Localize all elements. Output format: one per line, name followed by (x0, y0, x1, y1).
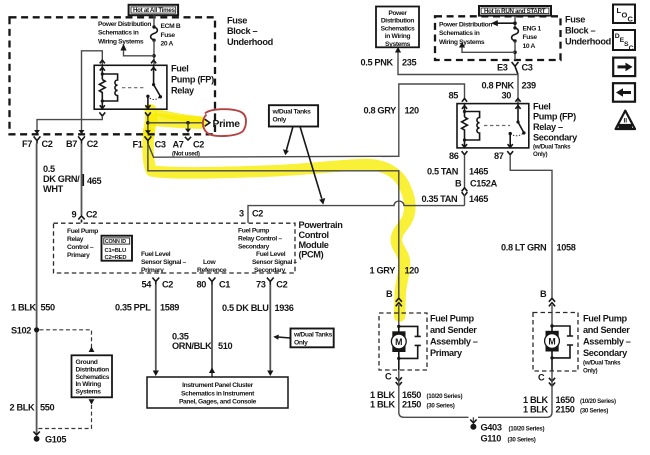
relay bottom pin chevrons (100, 105, 151, 108)
svg-text:1 BLK: 1 BLK (523, 405, 549, 415)
fuse block underhood (right) dashed box (435, 16, 561, 60)
svg-text:Control –: Control – (67, 244, 94, 251)
wire B7 to PCM pin 9 (81, 144, 83, 216)
icon arrow right box (613, 58, 635, 77)
svg-text:C2: C2 (86, 210, 97, 220)
svg-text:Control: Control (299, 230, 329, 240)
svg-text:B: B (540, 289, 547, 299)
svg-text:Only: Only (273, 117, 287, 124)
wire F7 ground chain (36, 144, 38, 435)
fuel pump relay secondary box (457, 104, 529, 148)
wire E3 to relay pin 30 (0.8 PNK 239) (517, 75, 519, 104)
svg-text:0.35 TAN: 0.35 TAN (422, 194, 459, 204)
ground distribution schematics box (72, 355, 113, 397)
PCM pin 9 C2 (72, 210, 98, 223)
highlighter mark along fuel pump feed wire (148, 132, 410, 316)
svg-text:510: 510 (218, 341, 233, 351)
svg-text:B7: B7 (66, 139, 77, 149)
secondary fuel level sender (552, 326, 573, 358)
svg-text:Fuel Pump: Fuel Pump (583, 313, 628, 323)
ground G403 / G110 (470, 417, 544, 443)
svg-text:Systems: Systems (76, 389, 102, 396)
wire below fuse, junction (514, 41, 516, 60)
splice S102 (34, 327, 39, 332)
fuse ECM B 20A (151, 23, 181, 47)
primary pump terminal C (385, 372, 402, 386)
svg-text:550: 550 (41, 303, 56, 313)
svg-text:ENG 1: ENG 1 (523, 26, 542, 33)
wire PCM 80 to instrument panel cluster (211, 285, 213, 378)
red circle annotation around Prime (203, 109, 246, 136)
relay coil pin chevrons (top left) (100, 60, 105, 70)
icon arrow left box (613, 83, 635, 102)
relay socket Y symbols below box (99, 112, 150, 116)
svg-text:1 BLK: 1 BLK (370, 390, 396, 400)
svg-text:Secondary: Secondary (254, 267, 286, 274)
svg-text:A7: A7 (173, 139, 184, 149)
relay2 armature dashed link (484, 125, 510, 127)
svg-text:3: 3 (239, 209, 244, 219)
junction node F1 / prime branch (146, 121, 150, 125)
svg-text:Schematics in: Schematics in (439, 30, 480, 37)
svg-text:Underhood: Underhood (565, 36, 611, 46)
primary pump terminal B (386, 289, 402, 327)
svg-text:Relay Control –: Relay Control – (238, 236, 282, 243)
svg-text:Underhood: Underhood (227, 37, 273, 47)
relay2 coil pin chevrons (462, 99, 467, 109)
svg-text:G403: G403 (481, 422, 502, 432)
CONN ID table (102, 236, 133, 261)
svg-text:Assembly –: Assembly – (430, 336, 478, 346)
svg-text:0.8 PNK: 0.8 PNK (482, 80, 515, 90)
svg-text:CONN ID: CONN ID (105, 239, 126, 245)
svg-text:Systems: Systems (385, 41, 411, 48)
svg-text:1650: 1650 (402, 390, 421, 400)
svg-text:Relay –: Relay – (533, 122, 563, 132)
svg-text:ORN/BLK: ORN/BLK (172, 341, 212, 351)
ground G105 (33, 432, 66, 445)
svg-text:550: 550 (40, 403, 55, 413)
svg-text:Hot in RUN and START: Hot in RUN and START (484, 8, 546, 15)
wire PCM 54 to instrument panel cluster (155, 285, 157, 372)
svg-text:C2: C2 (276, 280, 287, 290)
svg-text:C3: C3 (522, 62, 533, 72)
svg-text:In Wiring: In Wiring (76, 381, 102, 388)
wire fuse to relay switch pin (153, 40, 155, 65)
junction node A7 stub (186, 121, 190, 125)
wire bracket feeding relay coil from B7 (82, 51, 103, 132)
svg-text:C2: C2 (193, 139, 204, 149)
PCM text fuel pump relay control secondary (238, 228, 282, 251)
svg-text:B: B (386, 289, 393, 299)
svg-text:Fuel Level: Fuel Level (141, 251, 171, 258)
svg-text:1650: 1650 (556, 395, 575, 405)
dashed reference from ground distribution box to G105 (37, 405, 92, 429)
svg-text:Fuse: Fuse (523, 34, 538, 41)
w/Dual Tanks Only box (middle) with arrow (273, 329, 334, 348)
svg-text:0.35 PPL: 0.35 PPL (115, 303, 151, 313)
svg-text:120: 120 (405, 106, 420, 116)
svg-text:0.5: 0.5 (43, 164, 55, 174)
svg-text:Wiring Systems: Wiring Systems (98, 38, 144, 45)
wire F1 to primary fuel pump (1 GRY 120) (148, 144, 399, 298)
svg-text:0.8 LT GRN: 0.8 LT GRN (501, 242, 547, 252)
wire primary pump to ground bus (399, 370, 469, 417)
svg-text:1465: 1465 (469, 194, 488, 204)
wire PCM 73 to instrument panel cluster (269, 285, 271, 372)
svg-text:C1: C1 (219, 280, 230, 290)
svg-text:M: M (395, 337, 402, 347)
svg-text:Primary: Primary (67, 252, 90, 259)
connector pins at fuse block bottom edge: F7 B7 F1 A7 (34, 136, 41, 143)
fuse ENG 1 10A (512, 26, 542, 50)
svg-text:Panel, Gages, and Console: Panel, Gages, and Console (179, 399, 257, 406)
svg-text:239: 239 (522, 80, 537, 90)
svg-text:Schematics in: Schematics in (98, 30, 139, 37)
svg-text:20 A: 20 A (161, 41, 174, 48)
svg-text:Primary: Primary (430, 348, 463, 358)
header Hot at All Times (129, 5, 179, 15)
highlighter mark over prime wire (149, 110, 151, 134)
svg-text:30: 30 (502, 91, 512, 101)
svg-text:235: 235 (402, 57, 417, 67)
power distribution schematics box (solid) (376, 7, 419, 48)
primary pump motor M (391, 325, 406, 370)
wire 0.5 PNK 235 to power distribution schematic box (398, 52, 518, 75)
svg-text:Powertrain: Powertrain (299, 220, 344, 230)
header Hot in RUN and START (479, 6, 551, 16)
svg-text:Distribution: Distribution (381, 18, 415, 25)
svg-text:Pump (FP): Pump (FP) (533, 112, 576, 122)
svg-text:C: C (538, 373, 545, 383)
svg-text:w/Dual Tanks: w/Dual Tanks (293, 332, 333, 339)
svg-text:Relay: Relay (67, 236, 84, 243)
svg-text:Fuse: Fuse (227, 15, 247, 25)
svg-text:C152A: C152A (470, 178, 498, 188)
secondary pump motor M (545, 324, 560, 371)
svg-text:80: 80 (197, 280, 207, 290)
svg-text:Prime: Prime (213, 119, 241, 130)
svg-text:1 BLK: 1 BLK (523, 395, 549, 405)
svg-text:Distribution: Distribution (76, 366, 110, 373)
branch with up arrow into reference text (462, 47, 515, 53)
svg-text:Only): Only) (533, 151, 548, 158)
fuel pump and sender assembly secondary dashed box (533, 313, 578, 372)
svg-text:120: 120 (405, 265, 420, 275)
arrow to power distribution text (left pointing) (497, 22, 515, 24)
PCM text fuel pump relay control primary (67, 228, 98, 259)
svg-text:Fuse: Fuse (565, 15, 585, 25)
svg-text:Secondary: Secondary (583, 348, 628, 358)
svg-text:(30 Series): (30 Series) (508, 436, 536, 443)
svg-text:Fuel Level: Fuel Level (256, 251, 286, 258)
svg-text:87: 87 (494, 151, 504, 161)
label 2 BLK 550 (10, 403, 55, 413)
dashed reference from S102 to ground distribution box (40, 330, 92, 348)
wire relay coil low side to F7 (37, 116, 102, 131)
svg-text:10 A: 10 A (523, 43, 536, 50)
svg-text:1058: 1058 (557, 242, 576, 252)
wire prime branch (148, 122, 203, 124)
secondary pump terminal C (538, 373, 555, 387)
instrument panel cluster box (147, 377, 288, 408)
svg-text:1 GRY: 1 GRY (370, 265, 396, 275)
svg-text:C: C (629, 45, 634, 52)
icon warning triangle OBD II (616, 111, 635, 129)
PCM text fuel level sensor signal primary (141, 251, 187, 274)
fuel pump relay (left) box (94, 65, 167, 109)
svg-text:C2=RED: C2=RED (105, 255, 127, 261)
svg-text:Block –: Block – (565, 25, 595, 35)
svg-text:0.5 TAN: 0.5 TAN (427, 167, 459, 177)
svg-text:Schematics in Instrument: Schematics in Instrument (181, 390, 255, 397)
svg-text:Assembly –: Assembly – (583, 336, 631, 346)
PCM text low reference (197, 259, 227, 274)
svg-text:0.35: 0.35 (172, 332, 189, 342)
relay2 switch (509, 99, 526, 148)
relay2 bottom pin chevrons and socket symbols (462, 144, 513, 147)
fuse block underhood (left) dashed box (10, 17, 216, 134)
svg-text:Sensor Signal –: Sensor Signal – (252, 259, 298, 266)
svg-text:Power Distribution: Power Distribution (439, 22, 492, 29)
wire stub to A7 (not used) (187, 123, 189, 130)
svg-text:Power: Power (388, 10, 407, 17)
svg-text:54: 54 (142, 280, 153, 290)
svg-text:86: 86 (449, 151, 459, 161)
icon DESC box (613, 30, 635, 52)
svg-text:Primary: Primary (141, 267, 164, 274)
svg-text:(PCM): (PCM) (299, 250, 324, 260)
svg-text:(10/20 Series): (10/20 Series) (427, 393, 463, 400)
svg-text:Low: Low (203, 259, 216, 266)
secondary pump terminal B (540, 289, 555, 326)
connector pin E3 C3 (497, 62, 533, 75)
svg-text:C2: C2 (42, 139, 53, 149)
svg-text:Relay: Relay (171, 86, 195, 96)
wire relay switch output to F1 (147, 116, 149, 131)
svg-text:F7: F7 (22, 139, 32, 149)
svg-text:Block –: Block – (227, 26, 257, 36)
svg-text:C2: C2 (87, 139, 98, 149)
svg-text:Fuel: Fuel (533, 101, 551, 111)
relay2 coil with parallel resistor (462, 104, 480, 148)
relay coil with parallel resistor (99, 65, 117, 109)
wire header into fuse block (514, 17, 516, 28)
wire secondary pump to ground bus (478, 371, 552, 417)
svg-text:Sensor Signal –: Sensor Signal – (141, 259, 187, 266)
svg-text:E3: E3 (497, 62, 508, 72)
svg-text:Hot at All Times: Hot at All Times (133, 7, 175, 14)
svg-text:F1: F1 (133, 139, 143, 149)
svg-text:C1=BLU: C1=BLU (105, 248, 127, 254)
svg-text:(10/20 Series): (10/20 Series) (580, 398, 616, 405)
svg-text:465: 465 (87, 176, 102, 186)
svg-text:(10/20 Series): (10/20 Series) (509, 425, 545, 432)
svg-text:Pump (FP): Pump (FP) (171, 75, 214, 85)
svg-text:Fuel Pump: Fuel Pump (238, 228, 269, 235)
prime exit chevron (205, 119, 210, 126)
svg-text:(30 Series): (30 Series) (580, 408, 608, 415)
relay switch (left) (146, 60, 162, 109)
reference text power distribution (left) (98, 21, 151, 45)
svg-text:Only: Only (294, 340, 308, 347)
wire F1 to secondary relay coil (0.8 GRY 120) (148, 84, 465, 157)
svg-text:C2: C2 (162, 280, 173, 290)
svg-text:Ground: Ground (76, 359, 98, 366)
svg-text:Instrument Panel Cluster: Instrument Panel Cluster (182, 382, 254, 389)
fuel pump and sender assembly primary dashed box (379, 313, 427, 370)
svg-text:1589: 1589 (160, 303, 179, 313)
svg-text:C3: C3 (155, 139, 166, 149)
svg-text:Secondary: Secondary (533, 133, 578, 143)
svg-text:(w/Dual Tanks: (w/Dual Tanks (533, 144, 571, 151)
svg-text:WHT: WHT (43, 184, 64, 194)
svg-text:Power Distribution: Power Distribution (98, 21, 151, 28)
svg-text:2 BLK: 2 BLK (10, 403, 36, 413)
junction node above fuse (513, 21, 517, 25)
relay armature dashed link (122, 87, 146, 89)
svg-text:C: C (628, 15, 634, 24)
wire pin 87 to secondary fuel pump (0.8 LT GRN 1058) (510, 155, 552, 298)
svg-text:M: M (548, 337, 555, 347)
junction node on feed wire (152, 54, 156, 58)
wire pin 86 to PCM 3 (0.5 TAN / 0.35 TAN 1465) with C152A connector (422, 155, 498, 206)
svg-text:Only): Only) (583, 368, 598, 375)
svg-text:0.5 PNK: 0.5 PNK (361, 57, 394, 67)
svg-text:Reference: Reference (197, 267, 227, 274)
svg-text:B: B (455, 178, 462, 188)
icon LOC box (613, 5, 635, 24)
wire from header to fuse (153, 15, 155, 26)
svg-text:2150: 2150 (402, 399, 421, 409)
svg-text:G105: G105 (45, 434, 66, 444)
svg-text:Fuel: Fuel (171, 64, 189, 74)
w/Dual Tanks Only box (top) with arrows (269, 105, 325, 204)
primary fuel level sender (399, 326, 421, 358)
PCM bottom pins 54 C2 / 80 C1 / 73 C2 (142, 278, 288, 290)
reference text power distribution (right block) (439, 22, 492, 46)
svg-text:(30 Series): (30 Series) (427, 402, 455, 409)
svg-text:2150: 2150 (556, 405, 575, 415)
svg-text:Module: Module (299, 240, 329, 250)
svg-text:0.8 GRY: 0.8 GRY (364, 106, 397, 116)
svg-text:Fuse: Fuse (161, 32, 176, 39)
svg-text:C: C (385, 372, 392, 382)
svg-text:w/Dual Tanks: w/Dual Tanks (272, 109, 312, 116)
svg-text:DK GRN/: DK GRN/ (43, 174, 80, 184)
svg-text:and Sender: and Sender (583, 325, 630, 335)
svg-text:and Sender: and Sender (430, 325, 477, 335)
svg-text:C2: C2 (252, 209, 263, 219)
svg-text:(w/Dual Tanks: (w/Dual Tanks (583, 360, 621, 367)
svg-text:0.5 DK BLU: 0.5 DK BLU (222, 303, 269, 313)
svg-text:S102: S102 (11, 326, 31, 336)
svg-text:in Wiring: in Wiring (385, 33, 411, 40)
svg-text:1936: 1936 (275, 303, 294, 313)
svg-text:Secondary: Secondary (238, 244, 270, 251)
svg-text:85: 85 (449, 91, 459, 101)
wire branch to power distribution reference arrow (124, 50, 155, 56)
svg-text:9: 9 (72, 210, 77, 220)
svg-text:73: 73 (256, 280, 266, 290)
svg-text:Fuel Pump: Fuel Pump (67, 228, 98, 235)
svg-text:Schematics: Schematics (76, 374, 110, 381)
svg-text:ECM B: ECM B (161, 23, 181, 30)
svg-text:1465: 1465 (469, 167, 488, 177)
PCM pin 3 C2 with wire to secondary relay (239, 201, 465, 223)
svg-text:Fuel Pump: Fuel Pump (430, 313, 475, 323)
svg-text:1 BLK: 1 BLK (370, 399, 396, 409)
svg-text:OBD II: OBD II (619, 124, 631, 129)
powertrain control module (PCM) dashed box (54, 223, 296, 273)
svg-text:Schematics: Schematics (381, 25, 415, 32)
svg-text:1 BLK: 1 BLK (11, 303, 37, 313)
PCM text fuel level sensor signal secondary (252, 251, 298, 274)
svg-text:G110: G110 (481, 433, 502, 443)
